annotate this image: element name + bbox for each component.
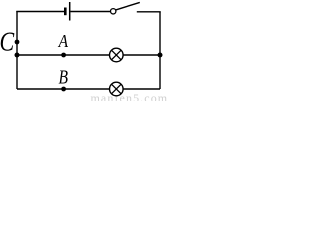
svg-text:B: B [59,66,69,88]
switch S1 pivot [111,9,116,14]
node A dot [61,53,66,58]
wire battery to switch [70,11,110,13]
wire bottom branch B [17,88,160,90]
wire right vertical [159,12,161,89]
svg-text:A: A [58,31,69,51]
wire left vertical [16,11,18,89]
node C junction dot [15,40,20,45]
svg-text:C: C [0,28,15,58]
wire top left segment [16,11,64,13]
switch blade (open) [116,2,140,9]
lamp L1 on branch A [110,48,124,62]
junction dot right middle [158,53,163,58]
wire middle branch A [17,54,160,56]
node B dot [61,87,66,92]
battery cell [65,2,69,21]
lamp L2 on branch B [110,82,124,96]
svg-text:manfen5.com: manfen5.com [91,91,168,101]
wire switch to top right corner [137,11,161,13]
junction dot left middle [15,53,20,58]
